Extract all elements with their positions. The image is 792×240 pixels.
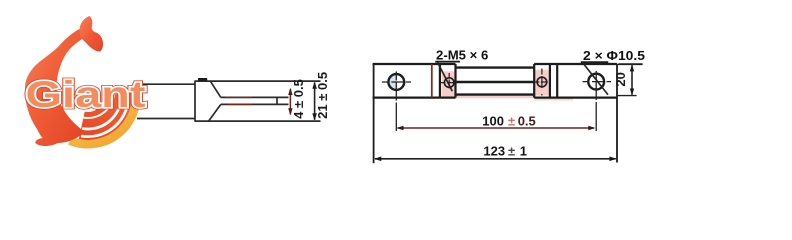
svg-text:20: 20 — [613, 72, 628, 86]
svg-text:2 × Φ10.5: 2 × Φ10.5 — [583, 48, 645, 63]
svg-text:100: 100 — [482, 114, 504, 129]
svg-text:±: ± — [508, 114, 515, 129]
svg-text:Giant: Giant — [26, 73, 147, 115]
svg-text:21 ± 0.5: 21 ± 0.5 — [315, 72, 330, 119]
svg-text:±: ± — [508, 144, 515, 159]
svg-text:2-M5 × 6: 2-M5 × 6 — [436, 48, 488, 63]
svg-text:123: 123 — [483, 144, 505, 159]
svg-text:1: 1 — [520, 144, 527, 159]
svg-text:4 ± 0.5: 4 ± 0.5 — [291, 79, 306, 119]
svg-text:0.5: 0.5 — [518, 114, 536, 129]
